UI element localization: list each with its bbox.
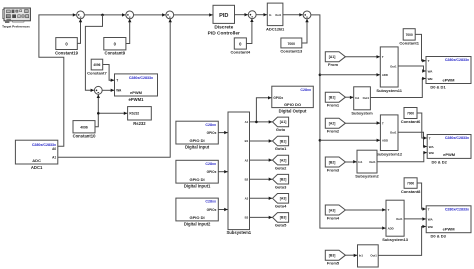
svg-text:C280x/C2833x: C280x/C2833x	[445, 58, 469, 62]
Target Preferences block (DSP board icon)	[2, 8, 30, 29]
PID block	[213, 5, 235, 23]
svg-text:Out1: Out1	[390, 131, 397, 135]
goto tag [B2] Goto3	[273, 174, 289, 184]
GPIO DO Digital Output block	[272, 86, 314, 107]
svg-text:[B3]: [B3]	[329, 254, 336, 258]
wire Constant7 to ePWM1 T	[103, 65, 114, 81]
svg-text:4096: 4096	[93, 63, 100, 67]
svg-text:From4: From4	[327, 215, 340, 220]
svg-text:[A2]: [A2]	[329, 122, 336, 126]
from tag [A2] From2	[325, 118, 345, 128]
svg-text:WA: WA	[429, 145, 435, 149]
constant Constant7 value 4096	[91, 59, 103, 70]
tall subsystem Subsystem11	[380, 47, 398, 87]
wire ADC12B1 to sum S4	[283, 14, 303, 16]
wire GPIO DI out to Subsystem1 y=172	[218, 171, 227, 173]
svg-text:D0 & D1: D0 & D1	[430, 85, 446, 90]
goto tag [B1] Goto1	[273, 136, 289, 146]
svg-text:PID Controller: PID Controller	[208, 30, 240, 36]
svg-text:C28xx: C28xx	[300, 88, 311, 92]
svg-text:Subsystem13: Subsystem13	[382, 237, 409, 242]
svg-text:Digital Input: Digital Input	[185, 145, 210, 150]
sum S2	[126, 11, 134, 19]
svg-text:[A2]: [A2]	[280, 158, 287, 162]
constant Constant1 value 7000	[403, 29, 415, 40]
svg-text:ADD: ADD	[382, 139, 388, 143]
svg-text:C28xx: C28xx	[205, 123, 216, 127]
wire Constant4 up to S5	[246, 19, 252, 44]
svg-text:WB: WB	[428, 77, 434, 81]
svg-text:B3: B3	[245, 216, 249, 220]
svg-text:ePWM: ePWM	[443, 227, 456, 232]
junction port1 branch	[255, 121, 258, 124]
wire Subsystem1 port to goto y=141	[250, 140, 273, 142]
svg-text:A1: A1	[245, 120, 249, 124]
svg-text:A2: A2	[245, 158, 249, 162]
svg-text:Subsystem: Subsystem	[351, 110, 373, 115]
svg-text:From1: From1	[327, 103, 340, 108]
svg-text:D0 & D2: D0 & D2	[432, 159, 448, 164]
wire From B2 to Subsystem2	[345, 161, 356, 163]
wire Subsystem1 port to goto y=160	[250, 159, 273, 161]
wire Subsystem3 Out1 to ePWM D0&D3 WB	[378, 227, 426, 256]
goto tag [A2] Goto2	[273, 155, 289, 165]
from tag [A1] From	[325, 52, 345, 62]
svg-text:Goto2: Goto2	[275, 165, 287, 170]
svg-text:Goto3: Goto3	[275, 184, 287, 189]
svg-text:ePWM: ePWM	[130, 90, 143, 95]
wire Subsystem11 Out1 to ePWM D0&D1 WA	[398, 66, 426, 71]
svg-text:Goto1: Goto1	[275, 146, 287, 151]
svg-text:GPIOx: GPIOx	[207, 131, 217, 135]
wire From A1 to Subsystem11	[345, 56, 380, 58]
svg-text:Constant6: Constant6	[401, 119, 421, 124]
wire From A3 to Subsystem13	[345, 209, 385, 211]
svg-text:D0 & D3: D0 & D3	[431, 234, 447, 239]
svg-text:Goto5: Goto5	[275, 223, 287, 228]
wire PID to sum S5	[235, 14, 248, 16]
svg-text:Subsystem11: Subsystem11	[376, 88, 402, 93]
svg-text:Digital Output: Digital Output	[279, 108, 307, 113]
svg-text:From3: From3	[327, 167, 340, 172]
constant Constant10 value 4096	[73, 121, 95, 133]
svg-text:7000: 7000	[407, 182, 414, 186]
svg-text:Goto: Goto	[276, 127, 286, 132]
svg-text:WA: WA	[428, 217, 434, 221]
svg-text:Out1: Out1	[396, 217, 403, 221]
svg-text:ADC12B1: ADC12B1	[266, 26, 285, 31]
sum S2b near ePWM1	[94, 86, 102, 94]
svg-text:Out1: Out1	[390, 64, 397, 68]
svg-text:Constant9: Constant9	[105, 51, 126, 56]
GPIO DI block Digital Input	[176, 121, 218, 144]
svg-text:RS232: RS232	[129, 112, 139, 116]
wire bus branch to Subsystem11 ADD	[320, 74, 380, 76]
Subsystem1 (middle tall subsystem)	[228, 112, 250, 230]
wire Subsystem Out1 to ePWM D0&D1 WB	[370, 79, 425, 98]
wire sum S1 to sum S2	[84, 14, 125, 16]
svg-text:T: T	[428, 59, 430, 63]
junction on S1-S2 wire	[101, 14, 104, 17]
svg-text:7000: 7000	[407, 111, 414, 115]
svg-text:ePWM: ePWM	[443, 77, 456, 82]
constant Constant4 value 0	[234, 38, 246, 49]
svg-text:GPIO DI: GPIO DI	[190, 177, 205, 182]
from tag [A3] From4	[325, 205, 345, 215]
tall subsystem Subsystem12	[380, 115, 398, 151]
wire sum S3 to PID	[174, 14, 213, 16]
wire Constant13 up to S4	[302, 19, 307, 43]
svg-text:ePWM1: ePWM1	[129, 97, 145, 102]
svg-text:A0: A0	[52, 147, 56, 151]
svg-text:Discrete: Discrete	[214, 25, 233, 31]
svg-text:From5: From5	[327, 261, 340, 266]
svg-text:4096: 4096	[80, 126, 88, 130]
svg-text:GPIO DI: GPIO DI	[190, 215, 205, 220]
svg-text:Constant10: Constant10	[73, 134, 96, 139]
wire Subsystem1 port to goto y=179	[250, 178, 273, 180]
svg-text:Subsystem2: Subsystem2	[355, 174, 379, 179]
svg-text:Constant13: Constant13	[280, 49, 303, 54]
svg-text:C28xx: C28xx	[205, 200, 216, 204]
svg-text:Out1: Out1	[363, 96, 370, 100]
svg-text:In1: In1	[358, 160, 362, 164]
svg-text:B2: B2	[245, 177, 249, 181]
small subsystem Subsystem3	[358, 245, 379, 267]
svg-text:WA: WA	[428, 69, 434, 73]
svg-text:A3: A3	[245, 197, 249, 201]
wire Constant9 up to S2	[126, 19, 130, 43]
svg-text:T: T	[388, 208, 390, 212]
wire bus branch to Subsystem12 ADD	[320, 139, 380, 141]
svg-text:[A1]: [A1]	[329, 55, 336, 59]
constant Constant6 value 7000	[404, 108, 417, 119]
wire sum S2 to sum S3	[134, 14, 166, 16]
svg-text:Digital Input1: Digital Input1	[184, 184, 211, 189]
svg-text:From2: From2	[327, 129, 340, 134]
svg-text:7000: 7000	[406, 33, 413, 37]
wire branch to sum S2b	[85, 15, 102, 90]
svg-text:Constant7: Constant7	[87, 70, 107, 75]
goto tag [A1] Goto	[273, 117, 289, 127]
svg-text:[B3]: [B3]	[280, 216, 287, 220]
wire ADC A1 feedback up to S3	[58, 19, 170, 157]
svg-text:T: T	[429, 136, 431, 140]
wire Constant1 to ePWM D0&D1 T	[415, 34, 425, 60]
sum S5 after PID	[248, 11, 256, 19]
constant Constant13 value 7000	[281, 38, 302, 48]
wire feedback ADC A0 to sum S1	[39, 15, 76, 146]
svg-text:Subsystem1: Subsystem1	[226, 230, 251, 235]
svg-text:PID: PID	[219, 13, 228, 19]
svg-text:Out1: Out1	[369, 160, 376, 164]
svg-text:[B2]: [B2]	[280, 178, 287, 182]
ADC block	[15, 140, 57, 164]
svg-text:Subsystem12: Subsystem12	[376, 151, 403, 156]
wire GPIO DI out to Subsystem1 y=210	[218, 209, 227, 211]
wire Subsystem12 Out1 to ePWM D0&D2 WA	[398, 132, 427, 146]
svg-text:A1: A1	[52, 156, 56, 160]
wire Subsystem1 port to goto y=217	[250, 216, 273, 218]
GPIO DI block Digital Input2	[176, 198, 218, 221]
svg-text:7000: 7000	[288, 42, 296, 46]
svg-text:[B1]: [B1]	[329, 96, 336, 100]
small subsystem Subsystem	[354, 87, 371, 110]
svg-text:GPIOx: GPIOx	[207, 170, 217, 174]
svg-text:C280x/C2833x: C280x/C2833x	[445, 136, 469, 140]
from tag [B1] From1	[325, 92, 345, 102]
svg-text:GPIO DI: GPIO DI	[190, 138, 205, 143]
svg-text:GPIOx: GPIOx	[207, 208, 217, 212]
constant Constant8 value 7000	[404, 178, 417, 189]
svg-text:Constant8: Constant8	[401, 189, 421, 194]
svg-text:Digital Input2: Digital Input2	[184, 222, 211, 227]
from tag [B3] From5	[325, 250, 345, 260]
junction bus row2	[319, 139, 322, 142]
ePWM block D0 & D3	[426, 206, 471, 233]
wire Constant10 up to S2b and branch to RS232	[95, 95, 98, 127]
wire GPIO DI out to Subsystem1 y=133	[218, 132, 227, 134]
GPIO DI block Digital Input1	[176, 160, 218, 183]
sum S4 after ADC12B1	[303, 11, 311, 19]
svg-text:B1: B1	[245, 139, 249, 143]
svg-text:WB: WB	[429, 151, 435, 155]
wire bus from sum S4 down right side	[311, 15, 386, 228]
wire Constant8 to ePWM D0&D3 T	[417, 183, 426, 209]
svg-text:Out1: Out1	[275, 13, 281, 17]
svg-text:ADD: ADD	[388, 226, 394, 230]
wire Constant19 up to S1	[77, 19, 80, 43]
svg-text:Out1: Out1	[370, 254, 377, 258]
svg-text:Target Preferences: Target Preferences	[2, 25, 30, 29]
svg-text:T: T	[116, 78, 118, 82]
tall subsystem Subsystem13	[386, 200, 404, 236]
from tag [B2] From3	[325, 157, 345, 167]
wire S2b to ePWM1 WA	[102, 89, 114, 91]
ePWM block D0 & D1	[426, 57, 471, 84]
svg-text:Rs232: Rs232	[133, 121, 146, 126]
wire Subsystem13 Out1 to ePWM D0&D3 WA	[404, 218, 426, 220]
constant Constant9 value 0	[104, 38, 126, 50]
svg-text:T: T	[428, 207, 430, 211]
svg-text:From: From	[328, 62, 338, 67]
small subsystem Subsystem2	[357, 150, 377, 173]
wire sum S5 to ADC12B1	[256, 14, 267, 16]
wire Subsystem1 port to goto y=198	[250, 197, 273, 199]
wire Subsystem2 Out1 to ePWM D0&D2 WB	[377, 153, 427, 162]
junction bus row1	[319, 74, 322, 77]
sum S3	[166, 11, 174, 19]
svg-text:ADD: ADD	[382, 73, 388, 77]
RS232 block	[128, 107, 152, 120]
wire Constant6 to ePWM D0&D2 T	[417, 113, 427, 138]
svg-text:In1: In1	[355, 96, 359, 100]
wire From B3 to Subsystem3	[345, 254, 357, 256]
svg-text:WB: WB	[428, 225, 434, 229]
svg-text:C280x/C2833x: C280x/C2833x	[445, 207, 469, 211]
ADC12B1 subsystem block	[267, 3, 283, 26]
svg-text:[A3]: [A3]	[280, 197, 287, 201]
svg-text:ePWM: ePWM	[443, 152, 456, 157]
goto tag [B3] Goto5	[273, 213, 289, 223]
goto tag [A3] Goto4	[273, 194, 289, 204]
svg-text:Constant1: Constant1	[399, 41, 419, 46]
svg-text:T: T	[382, 55, 384, 59]
svg-text:GPIOx: GPIOx	[273, 96, 283, 100]
wire From A2 to Subsystem12	[345, 122, 380, 124]
svg-text:[A3]: [A3]	[329, 208, 336, 212]
svg-text:T: T	[382, 121, 384, 125]
ePWM block D0 & D2	[427, 135, 471, 159]
svg-text:In1: In1	[359, 254, 363, 258]
svg-text:C280x/C2833x: C280x/C2833x	[129, 76, 153, 80]
svg-text:Constant19: Constant19	[55, 50, 78, 55]
sum S1	[77, 11, 85, 19]
svg-text:[B1]: [B1]	[280, 139, 287, 143]
wire Subsystem1 port1 to Goto A1 and branch up to GPIO DO	[250, 121, 273, 123]
constant Constant19 value 0	[56, 38, 78, 50]
svg-text:GPIO DO: GPIO DO	[284, 102, 301, 107]
junction Constant10/RS232 branch	[97, 112, 100, 115]
svg-text:WA: WA	[116, 89, 122, 93]
svg-text:Goto4: Goto4	[275, 204, 287, 209]
svg-text:Constant4: Constant4	[231, 50, 251, 55]
svg-text:ADC1: ADC1	[31, 165, 43, 170]
ePWM1 block	[115, 74, 158, 96]
svg-text:ADC: ADC	[32, 158, 41, 163]
svg-text:C28xx: C28xx	[205, 162, 216, 166]
svg-text:[A1]: [A1]	[280, 120, 287, 124]
svg-text:[B2]: [B2]	[329, 160, 336, 164]
wire From B1 to Subsystem	[345, 96, 353, 98]
